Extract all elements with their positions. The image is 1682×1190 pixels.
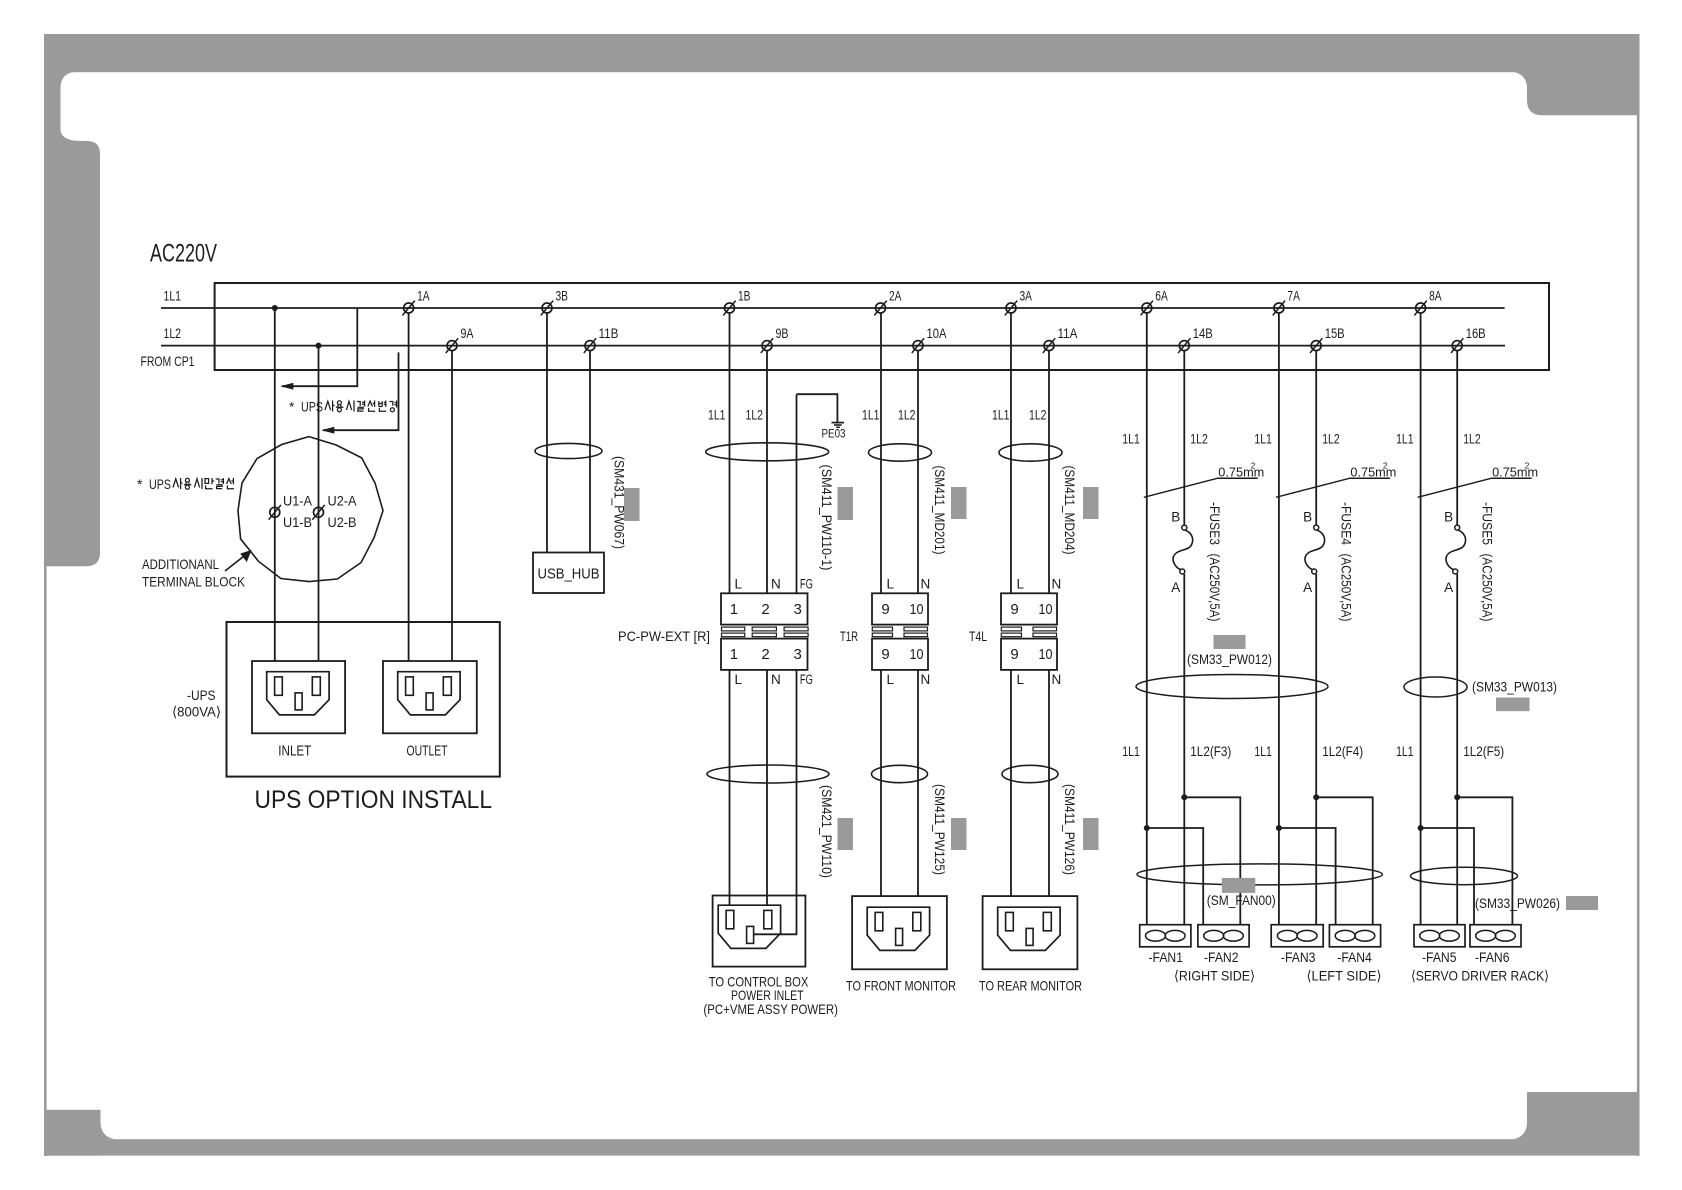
- svg-text:2A: 2A: [889, 289, 902, 304]
- cable ellipse SM411_PW125: [872, 765, 928, 782]
- wire pin2 to control box N: [766, 670, 768, 905]
- fan FAN3: [1271, 925, 1323, 947]
- junction dot 1L1 left-side fans: [1276, 825, 1282, 831]
- svg-text:7A: 7A: [1287, 289, 1300, 304]
- svg-text:B: B: [1171, 510, 1180, 525]
- note arrow 1 (UPS rewire) wire: [282, 308, 357, 386]
- terminal block PC-PW-EXT lower row: [721, 639, 808, 670]
- svg-text:10: 10: [910, 601, 924, 618]
- svg-text:B: B: [1303, 510, 1312, 525]
- monitor IEC connector T1R: [867, 907, 929, 950]
- wire 1L2 feed lower left-side fans: [1315, 574, 1317, 925]
- svg-text:USB_HUB: USB_HUB: [538, 567, 600, 583]
- svg-text:1B: 1B: [738, 289, 751, 304]
- note arrow 1 head: [280, 383, 293, 390]
- svg-text:(SM_FAN00): (SM_FAN00): [1207, 893, 1276, 908]
- svg-text:⟨SERVO DRIVER RACK⟩: ⟨SERVO DRIVER RACK⟩: [1411, 968, 1549, 984]
- UPS OUTLET connector box: [383, 661, 477, 733]
- svg-text:-FAN5: -FAN5: [1422, 949, 1457, 965]
- wire 1L2 feed upper left-side fans: [1315, 351, 1317, 525]
- fan FAN2: [1198, 925, 1249, 947]
- terminal 2A on 1L1: [874, 301, 886, 316]
- svg-text:L: L: [735, 672, 743, 687]
- svg-text:1: 1: [730, 601, 738, 618]
- gray connector mark SM411_MD201: [951, 487, 967, 519]
- svg-text:N: N: [921, 672, 931, 687]
- svg-text:-FUSE3: -FUSE3: [1207, 502, 1222, 545]
- svg-text:(AC250V,5A): (AC250V,5A): [1339, 554, 1354, 622]
- wire FG from PE03 to pin3: [796, 394, 798, 593]
- terminal block T4L lower row: [1001, 639, 1057, 670]
- svg-text:(SM411_PW125): (SM411_PW125): [932, 784, 947, 875]
- branch wire 1L1 to second fan servo fans: [1421, 828, 1474, 925]
- svg-text:1L1: 1L1: [1254, 743, 1272, 759]
- svg-text:1L1: 1L1: [1396, 743, 1414, 759]
- svg-text:11A: 11A: [1058, 326, 1078, 341]
- wire 1L1 feed right-side fans: [1146, 313, 1148, 925]
- svg-text:⟨RIGHT SIDE⟩: ⟨RIGHT SIDE⟩: [1174, 968, 1255, 984]
- svg-text:A: A: [1444, 580, 1453, 595]
- junction dot on 1L1 (UPS tap): [272, 305, 278, 311]
- wire pin1 to control box L: [729, 670, 731, 905]
- svg-text:9: 9: [881, 601, 889, 618]
- cable ellipse servo upper SM33_PW013: [1404, 677, 1467, 697]
- gray connector mark SM33_PW012: [1214, 635, 1246, 649]
- svg-text:N: N: [771, 577, 781, 592]
- svg-text:PC-PW-EXT [R]: PC-PW-EXT [R]: [618, 628, 710, 644]
- monitor connector box T4L: [983, 896, 1078, 969]
- fuse FUSE5 top pigtail: [1455, 525, 1460, 530]
- svg-text:N: N: [1052, 672, 1062, 687]
- svg-text:A: A: [1303, 580, 1312, 595]
- UPS INLET connector box: [252, 661, 345, 733]
- terminal 3B on 1L1: [541, 301, 553, 316]
- cable ellipse SM411_MD201: [869, 444, 932, 461]
- junction dot 1L1 servo fans: [1418, 825, 1424, 831]
- svg-text:-FAN1: -FAN1: [1149, 949, 1184, 965]
- cable ellipse SM411_PW110-1: [706, 443, 829, 461]
- gray connector mark SM_FAN00: [1222, 878, 1256, 893]
- svg-text:2: 2: [761, 601, 769, 618]
- cable ellipse SM411_MD204: [999, 444, 1062, 461]
- fuse FUSE3 bottom pigtail: [1180, 569, 1185, 574]
- junction dot 1L1 right-side fans: [1144, 825, 1150, 831]
- wire 1L2 dot to UPS inlet N: [318, 346, 320, 661]
- wire to T4L pin10: [1048, 351, 1050, 594]
- terminal 16B on 1L2: [1451, 338, 1463, 353]
- ground symbol PE03: [832, 422, 845, 424]
- svg-text:10: 10: [1039, 646, 1053, 663]
- UPS OUTLET connector U-OUT: [398, 672, 460, 715]
- USB_HUB box U-HUB: [533, 553, 604, 594]
- fan FAN5: [1414, 925, 1465, 947]
- fuse FUSE3 top pigtail: [1182, 525, 1187, 530]
- svg-text:2: 2: [1383, 461, 1388, 471]
- svg-text:1L1: 1L1: [1122, 431, 1140, 447]
- wire 9B to PC-PW-EXT pin2: [766, 351, 768, 594]
- terminal 9B on 1L2: [761, 338, 773, 353]
- wire to T1R pin9: [880, 313, 882, 593]
- svg-text:TERMINAL BLOCK: TERMINAL BLOCK: [142, 574, 246, 590]
- wire T1R pin9 to connector: [880, 670, 882, 896]
- wire T4L pin9 to connector: [1010, 670, 1012, 896]
- wire 1L1 dot to UPS inlet L: [274, 308, 276, 661]
- bus line 1L2: [161, 345, 1505, 347]
- svg-text:8A: 8A: [1429, 289, 1442, 304]
- svg-text:(SM33_PW013): (SM33_PW013): [1472, 680, 1557, 695]
- fuse FUSE4 wavy element: [1305, 530, 1325, 570]
- bus line 1L1: [161, 307, 1505, 309]
- svg-text:1L2: 1L2: [746, 407, 764, 423]
- wire pin3 FG to control box: [754, 670, 797, 934]
- UPS outer box: [227, 622, 500, 777]
- svg-text:-FUSE4: -FUSE4: [1339, 502, 1354, 545]
- svg-text:1L1: 1L1: [1254, 431, 1272, 447]
- terminal U1 (U1-A/U1-B): [269, 505, 281, 520]
- wire 1L2 feed upper servo fans: [1456, 351, 1458, 525]
- fan FAN6: [1470, 925, 1521, 947]
- svg-text:1: 1: [730, 646, 738, 663]
- svg-text:T4L: T4L: [969, 628, 987, 644]
- terminal block T4L hatch: [1001, 627, 1021, 631]
- svg-text:1L2: 1L2: [1190, 431, 1208, 447]
- svg-text:1L1: 1L1: [862, 407, 880, 423]
- terminal block T1R lower row: [872, 639, 928, 670]
- svg-text:2: 2: [1251, 461, 1256, 471]
- cable ellipse SM411_PW126: [1002, 765, 1058, 782]
- terminal 15B on 1L2: [1310, 338, 1322, 353]
- terminal 9A on 1L2: [446, 338, 458, 353]
- svg-text:OUTLET: OUTLET: [407, 743, 448, 759]
- svg-text:UPS: UPS: [301, 399, 323, 415]
- gray connector mark SM411_PW125: [951, 818, 967, 850]
- svg-text:L: L: [887, 672, 895, 687]
- UPS INLET connector U-IN: [267, 672, 329, 715]
- terminal 3A on 1L1: [1005, 301, 1017, 316]
- cable ellipse SM431_PW067: [535, 443, 602, 458]
- cable ellipse SM421_PW110: [707, 765, 829, 783]
- fuse FUSE3 wavy element: [1173, 530, 1193, 570]
- junction dot 1L2 servo fans: [1454, 794, 1460, 800]
- svg-text:(AC250V,5A): (AC250V,5A): [1480, 554, 1495, 622]
- svg-text:U2-B: U2-B: [328, 514, 357, 530]
- svg-text:T1R: T1R: [840, 628, 858, 644]
- svg-text:1L2: 1L2: [1029, 407, 1047, 423]
- svg-text:N: N: [1052, 577, 1062, 592]
- svg-text:L: L: [887, 577, 895, 592]
- svg-text:A: A: [1171, 580, 1180, 595]
- svg-text:FG: FG: [800, 577, 813, 592]
- svg-text:15B: 15B: [1325, 326, 1345, 341]
- terminal 1A on 1L1: [402, 301, 414, 316]
- svg-text:2: 2: [1525, 461, 1530, 471]
- svg-text:-FAN4: -FAN4: [1337, 949, 1372, 965]
- branch wire 1L1 to second fan right-side fans: [1147, 828, 1203, 925]
- fuse FUSE4 bottom pigtail: [1312, 569, 1317, 574]
- wire 1L2 feed upper right-side fans: [1183, 351, 1185, 525]
- fan FAN4: [1329, 925, 1380, 947]
- svg-text:⟨800VA⟩: ⟨800VA⟩: [172, 704, 221, 720]
- wire 1L2 feed lower servo fans: [1456, 574, 1458, 925]
- svg-text:(SM33_PW012): (SM33_PW012): [1187, 652, 1272, 667]
- wire 11B to USB hub: [589, 351, 591, 553]
- svg-text:B: B: [1444, 510, 1453, 525]
- terminal 14B on 1L2: [1178, 338, 1190, 353]
- svg-text:-FAN6: -FAN6: [1475, 949, 1510, 965]
- additional terminal block cloud: [238, 437, 383, 582]
- fuse FUSE5 wavy element: [1446, 530, 1466, 570]
- svg-text:3: 3: [794, 601, 802, 618]
- svg-text:0.75mm: 0.75mm: [1350, 465, 1396, 480]
- fan FAN1: [1140, 925, 1191, 947]
- svg-text:L: L: [1017, 672, 1025, 687]
- branch wire 1L1 to second fan left-side fans: [1279, 828, 1336, 925]
- svg-text:L: L: [735, 577, 743, 592]
- svg-text:1L1: 1L1: [1122, 743, 1140, 759]
- terminal block T1R upper row: [872, 593, 928, 624]
- gray connector mark SM33_PW026: [1566, 896, 1598, 910]
- svg-text:UPS: UPS: [149, 476, 171, 492]
- svg-text:10: 10: [910, 646, 924, 663]
- bus enclosure box: [215, 283, 1549, 370]
- svg-text:1L2(F3): 1L2(F3): [1190, 743, 1231, 759]
- terminal 6A on 1L1: [1141, 301, 1153, 316]
- wire 1L2 feed lower right-side fans: [1183, 574, 1185, 925]
- svg-text:(SM411_MD204): (SM411_MD204): [1062, 466, 1077, 555]
- svg-text:-UPS: -UPS: [187, 687, 216, 703]
- svg-text:9: 9: [881, 646, 889, 663]
- svg-text:1L2: 1L2: [1463, 431, 1481, 447]
- wire to T1R pin10: [917, 351, 919, 594]
- ground PE03 wire: [797, 394, 838, 422]
- svg-text:FG: FG: [800, 672, 813, 687]
- svg-text:U1-A: U1-A: [283, 493, 313, 509]
- svg-text:*: *: [137, 476, 143, 492]
- control box connector box: [713, 896, 806, 967]
- svg-text:9B: 9B: [776, 326, 789, 341]
- note arrow 2 (UPS rewire) wire: [323, 352, 399, 430]
- terminal 8A on 1L1: [1414, 301, 1426, 316]
- svg-text:-FAN3: -FAN3: [1281, 949, 1316, 965]
- cable ellipse servo lower SM33_PW026: [1411, 867, 1518, 884]
- svg-text:(PC+VME ASSY POWER): (PC+VME ASSY POWER): [703, 1001, 838, 1017]
- gray connector mark SM33_PW013: [1496, 698, 1530, 712]
- svg-text:9: 9: [1010, 646, 1018, 663]
- wire 1L1 feed left-side fans: [1278, 313, 1280, 925]
- svg-text:⟨LEFT SIDE⟩: ⟨LEFT SIDE⟩: [1307, 968, 1382, 984]
- terminal 1B on 1L1: [723, 301, 735, 316]
- svg-text:1L2: 1L2: [164, 325, 182, 341]
- control box IEC connector J-CTRL: [718, 905, 780, 948]
- svg-text:6A: 6A: [1155, 289, 1168, 304]
- svg-text:9: 9: [1010, 601, 1018, 618]
- junction dot 1L2 left-side fans: [1313, 794, 1319, 800]
- svg-text:(SM33_PW026): (SM33_PW026): [1475, 896, 1560, 911]
- junction dot on 1L2 (UPS tap): [316, 343, 322, 349]
- svg-text:(SM421_PW110): (SM421_PW110): [819, 785, 834, 878]
- svg-text:-FAN2: -FAN2: [1204, 949, 1239, 965]
- wire to T4L pin9: [1010, 313, 1012, 593]
- fuse FUSE4 top pigtail: [1314, 525, 1319, 530]
- svg-text:1L2(F4): 1L2(F4): [1322, 743, 1363, 759]
- svg-text:ADDITIONANL: ADDITIONANL: [142, 556, 219, 572]
- gray connector mark SM411_PW126: [1083, 818, 1099, 850]
- terminal 10A on 1L2: [912, 338, 924, 353]
- branch wire 1L2 to second fan servo fans: [1457, 797, 1512, 924]
- svg-text:*: *: [289, 399, 295, 415]
- cable ellipse fans 1-4 lower SM_FAN00: [1137, 864, 1382, 885]
- terminal 11B on 1L2: [584, 338, 596, 353]
- gray connector mark SM411_MD204: [1083, 487, 1099, 519]
- svg-text:PE03: PE03: [822, 427, 846, 441]
- svg-text:16B: 16B: [1466, 326, 1486, 341]
- monitor connector box T1R: [852, 896, 947, 969]
- svg-text:INLET: INLET: [278, 743, 311, 759]
- wire 1B to PC-PW-EXT pin1: [729, 313, 731, 593]
- svg-text:(SM411_PW110-1): (SM411_PW110-1): [819, 465, 834, 571]
- svg-text:AC220V: AC220V: [150, 240, 217, 268]
- terminal block PC-PW-EXT upper row: [721, 593, 808, 624]
- svg-text:U2-A: U2-A: [328, 493, 358, 509]
- svg-text:(SM411_PW126): (SM411_PW126): [1062, 784, 1077, 875]
- svg-text:L: L: [1017, 577, 1025, 592]
- svg-text:N: N: [771, 672, 781, 687]
- svg-text:10: 10: [1039, 601, 1053, 618]
- wire 3B to USB hub: [546, 313, 548, 552]
- junction dot 1L2 right-side fans: [1181, 794, 1187, 800]
- terminal U2 (U2-A/U2-B): [312, 505, 324, 520]
- branch wire 1L2 to second fan right-side fans: [1184, 797, 1240, 924]
- svg-text:14B: 14B: [1193, 326, 1213, 341]
- wire-size callout 0.75mm2 leader: [1418, 478, 1532, 497]
- terminal block PC-PW-EXT hatch: [722, 627, 745, 631]
- cable ellipse fans 1-4 upper: [1136, 675, 1328, 699]
- svg-text:N: N: [921, 577, 931, 592]
- fuse FUSE5 bottom pigtail: [1453, 569, 1458, 574]
- svg-text:0.75mm: 0.75mm: [1218, 465, 1264, 480]
- gray connector mark SM411_PW110-1: [838, 487, 854, 520]
- wire-size callout 0.75mm2 leader: [1144, 478, 1258, 497]
- svg-text:11B: 11B: [599, 326, 619, 341]
- svg-text:(AC250V,5A): (AC250V,5A): [1207, 554, 1222, 622]
- svg-text:TO REAR MONITOR: TO REAR MONITOR: [979, 977, 1082, 993]
- svg-text:1L2: 1L2: [1322, 431, 1340, 447]
- svg-text:9A: 9A: [461, 326, 474, 341]
- svg-text:3: 3: [794, 646, 802, 663]
- note arrow 2 head: [321, 427, 334, 434]
- svg-text:-FUSE5: -FUSE5: [1480, 502, 1495, 545]
- svg-text:1L2: 1L2: [898, 407, 916, 423]
- wire T4L pin10 to connector: [1048, 670, 1050, 896]
- wire 1A to UPS outlet L: [408, 313, 410, 661]
- gray connector mark SM421_PW110: [838, 818, 854, 850]
- leader arrow to cloud: [225, 555, 246, 572]
- svg-text:U1-B: U1-B: [283, 514, 312, 530]
- svg-text:1L1: 1L1: [708, 407, 726, 423]
- svg-text:3B: 3B: [556, 289, 569, 304]
- svg-text:1L1: 1L1: [164, 288, 182, 304]
- svg-text:TO FRONT MONITOR: TO FRONT MONITOR: [846, 977, 956, 993]
- svg-text:1A: 1A: [417, 289, 430, 304]
- svg-text:1L2(F5): 1L2(F5): [1463, 743, 1504, 759]
- wire-size callout 0.75mm2 leader: [1276, 478, 1390, 497]
- svg-text:10A: 10A: [927, 326, 947, 341]
- svg-text:FROM CP1: FROM CP1: [141, 353, 195, 369]
- wire 1L1 feed servo fans: [1420, 313, 1422, 925]
- svg-text:2: 2: [761, 646, 769, 663]
- branch wire 1L2 to second fan left-side fans: [1316, 797, 1373, 924]
- svg-text:(SM411_MD201): (SM411_MD201): [932, 466, 947, 555]
- wire T1R pin10 to connector: [917, 670, 919, 896]
- svg-text:0.75mm: 0.75mm: [1492, 465, 1538, 480]
- terminal block T4L upper row: [1001, 593, 1057, 624]
- wire 9A to UPS outlet N: [451, 351, 453, 661]
- svg-text:1L1: 1L1: [1396, 431, 1414, 447]
- monitor IEC connector T4L: [998, 907, 1060, 950]
- terminal 7A on 1L1: [1273, 301, 1285, 316]
- gray connector mark SM431_PW067: [624, 488, 640, 521]
- svg-text:3A: 3A: [1020, 289, 1033, 304]
- svg-text:1L1: 1L1: [992, 407, 1010, 423]
- svg-text:UPS OPTION INSTALL: UPS OPTION INSTALL: [255, 786, 493, 814]
- terminal 11A on 1L2: [1043, 338, 1055, 353]
- terminal block T1R hatch: [872, 627, 892, 631]
